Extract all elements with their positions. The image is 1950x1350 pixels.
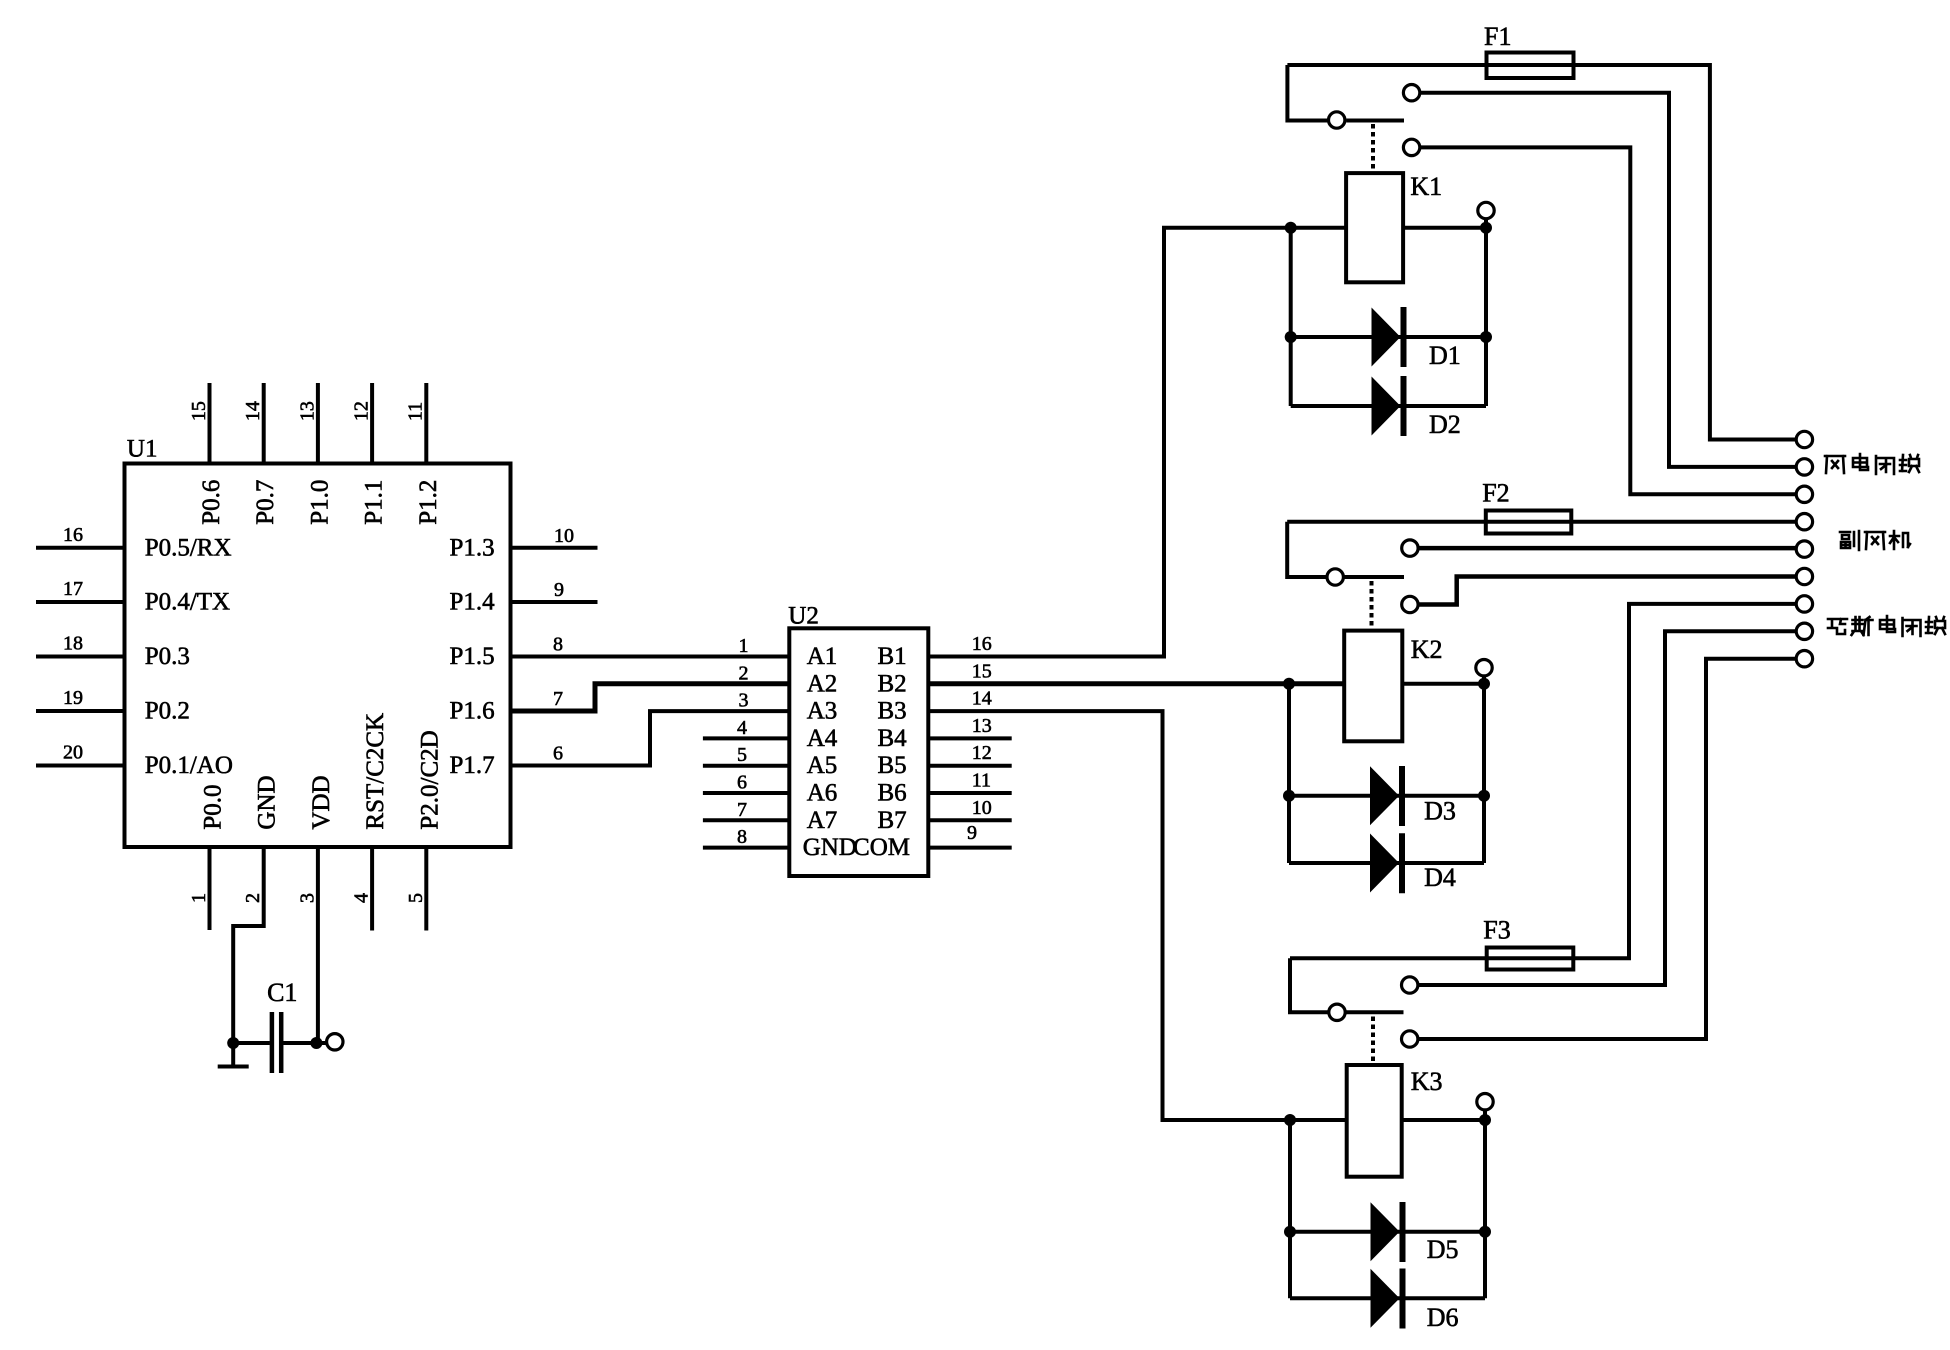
svg-text:P1.5: P1.5	[449, 643, 494, 670]
svg-text:6: 6	[737, 772, 747, 794]
svg-text:5: 5	[737, 744, 747, 766]
svg-text:B4: B4	[878, 725, 908, 752]
svg-text:A5: A5	[807, 752, 838, 779]
svg-text:A6: A6	[807, 780, 838, 807]
svg-text:B2: B2	[878, 670, 907, 697]
svg-text:3: 3	[296, 893, 318, 903]
svg-text:7: 7	[553, 688, 563, 710]
svg-text:15: 15	[972, 660, 992, 682]
svg-text:P0.6: P0.6	[198, 480, 225, 525]
svg-text:P1.6: P1.6	[449, 698, 494, 725]
svg-text:GND: GND	[254, 775, 281, 829]
svg-text:P0.1/AO: P0.1/AO	[145, 752, 233, 779]
svg-text:P1.0: P1.0	[306, 480, 333, 525]
svg-text:D4: D4	[1424, 863, 1456, 892]
svg-text:8: 8	[737, 826, 747, 848]
svg-text:11: 11	[972, 770, 991, 792]
svg-text:U1: U1	[127, 436, 158, 463]
svg-text:P1.3: P1.3	[449, 534, 494, 561]
svg-text:P1.4: P1.4	[449, 589, 495, 616]
svg-text:A3: A3	[807, 698, 838, 725]
svg-text:16: 16	[972, 633, 992, 655]
svg-text:13: 13	[972, 715, 992, 737]
svg-text:F1: F1	[1484, 22, 1511, 51]
svg-text:20: 20	[63, 742, 83, 764]
svg-text:RST/C2CK: RST/C2CK	[362, 713, 389, 830]
svg-text:A1: A1	[807, 643, 838, 670]
svg-text:11: 11	[405, 402, 427, 421]
svg-text:7: 7	[737, 799, 747, 821]
svg-text:9: 9	[554, 579, 564, 601]
svg-text:19: 19	[63, 687, 83, 709]
svg-text:14: 14	[972, 688, 992, 710]
svg-text:A7: A7	[807, 807, 838, 834]
svg-text:D1: D1	[1429, 341, 1461, 370]
svg-text:8: 8	[553, 634, 563, 656]
svg-text:B1: B1	[878, 643, 907, 670]
svg-text:13: 13	[296, 401, 318, 421]
svg-text:K2: K2	[1411, 635, 1443, 664]
svg-text:U2: U2	[788, 602, 819, 629]
svg-text:9: 9	[967, 822, 977, 844]
svg-text:B5: B5	[878, 752, 907, 779]
svg-text:P0.7: P0.7	[252, 480, 279, 525]
svg-text:P0.4/TX: P0.4/TX	[145, 589, 230, 616]
svg-text:B6: B6	[878, 780, 907, 807]
svg-text:K3: K3	[1411, 1067, 1443, 1096]
svg-text:P1.1: P1.1	[361, 480, 388, 525]
svg-text:3: 3	[739, 690, 749, 712]
svg-text:D5: D5	[1427, 1235, 1459, 1264]
svg-text:12: 12	[351, 401, 373, 421]
svg-text:18: 18	[63, 633, 83, 655]
svg-text:COM: COM	[853, 834, 910, 861]
svg-text:F2: F2	[1482, 479, 1509, 508]
svg-text:P2.0/C2D: P2.0/C2D	[416, 730, 443, 829]
svg-text:2: 2	[242, 893, 264, 903]
svg-text:D6: D6	[1427, 1303, 1459, 1332]
svg-text:GND: GND	[803, 834, 857, 861]
svg-text:P0.5/RX: P0.5/RX	[145, 534, 232, 561]
svg-text:F3: F3	[1483, 915, 1510, 944]
svg-text:2: 2	[739, 662, 749, 684]
svg-text:14: 14	[242, 401, 264, 421]
svg-text:1: 1	[739, 635, 749, 657]
svg-text:4: 4	[737, 717, 747, 739]
svg-text:C1: C1	[267, 978, 297, 1007]
svg-text:17: 17	[63, 578, 83, 600]
svg-text:D2: D2	[1429, 410, 1461, 439]
svg-text:P0.3: P0.3	[145, 643, 190, 670]
svg-text:5: 5	[405, 893, 427, 903]
svg-text:A4: A4	[807, 725, 838, 752]
svg-text:P1.7: P1.7	[449, 752, 494, 779]
svg-text:1: 1	[188, 893, 210, 903]
svg-text:P0.2: P0.2	[145, 698, 190, 725]
svg-text:B7: B7	[878, 807, 907, 834]
svg-text:10: 10	[972, 797, 992, 819]
svg-text:P0.0: P0.0	[200, 784, 227, 829]
svg-text:12: 12	[972, 742, 992, 764]
svg-text:K1: K1	[1410, 172, 1442, 201]
svg-text:10: 10	[554, 525, 574, 547]
svg-text:4: 4	[351, 893, 373, 903]
svg-text:6: 6	[553, 743, 563, 765]
svg-text:A2: A2	[807, 670, 838, 697]
svg-text:D3: D3	[1424, 796, 1456, 825]
svg-text:16: 16	[63, 524, 83, 546]
svg-text:P1.2: P1.2	[415, 480, 442, 525]
svg-text:B3: B3	[878, 698, 907, 725]
svg-text:VDD: VDD	[308, 775, 335, 829]
svg-text:15: 15	[188, 401, 210, 421]
